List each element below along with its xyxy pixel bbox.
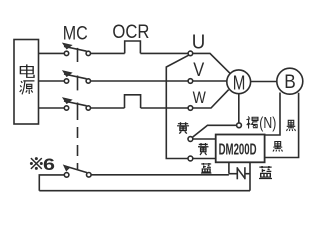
wire L3 from source — [39, 107, 65, 109]
power source box 电源 — [14, 40, 39, 125]
glyph 黄 upper — [177, 122, 189, 133]
bottom rail wire — [39, 190, 250, 192]
svg-text:W: W — [193, 88, 206, 107]
glyph 蓝 left — [201, 163, 211, 173]
contactor MC pole 2 — [63, 71, 91, 91]
wire V to motor — [193, 80, 227, 82]
svg-text:B: B — [284, 72, 296, 93]
OCR heater element phase 3 — [125, 95, 141, 108]
wire brown terminal to yellow terminal — [192, 125, 236, 137]
DM200D blue pin down to bottom rail — [249, 162, 251, 190]
wire L2 from source — [39, 80, 65, 82]
glyph 黄 lower — [198, 143, 209, 155]
wire junction to connector — [229, 173, 237, 175]
svg-text:6: 6 — [43, 155, 55, 174]
wire L1 from source — [39, 52, 65, 54]
wire yellow upper to DM200D — [193, 138, 216, 140]
motor M — [227, 70, 251, 94]
wire L1 to node U — [140, 52, 188, 54]
wire L3 to OCR — [91, 107, 125, 109]
svg-text:V: V — [193, 59, 204, 81]
wire W to motor — [193, 90, 229, 108]
wire M to B — [251, 81, 277, 83]
glyph 电 — [20, 64, 34, 77]
terminal brown (N) — [237, 123, 242, 128]
wire switch to junction — [91, 174, 229, 176]
B lead black left — [265, 93, 280, 136]
wire L1 to OCR — [91, 52, 125, 54]
DM200D bottom pin to connector junction — [228, 162, 230, 173]
reference mark ※ — [30, 157, 43, 170]
svg-text:U: U — [192, 32, 206, 54]
wire connector to blue pin — [245, 173, 250, 175]
OCR heater element phase 1 — [125, 41, 141, 53]
node U terminal — [188, 51, 193, 56]
contactor MC pole 1 — [63, 43, 91, 62]
svg-text:DM200D: DM200D — [219, 141, 257, 158]
B lead black right — [265, 93, 299, 158]
node W terminal — [188, 106, 193, 111]
wire yellow lower to DM200D — [193, 158, 216, 160]
glyph 源 — [20, 81, 35, 95]
DM200D unit box — [216, 135, 265, 163]
brake coil B — [277, 68, 303, 94]
mechanical linkage dashed — [77, 127, 79, 170]
glyph 黑 lower — [273, 142, 283, 152]
wire L3 to node W — [141, 107, 189, 109]
wire L2 to node V — [91, 80, 189, 82]
contactor MC pole 3 — [63, 98, 91, 120]
wire U to motor — [193, 53, 231, 74]
svg-text:MC: MC — [63, 24, 88, 45]
node V terminal — [188, 79, 193, 84]
terminal yellow upper — [188, 137, 193, 142]
connector plug symbol — [237, 167, 245, 179]
glyph 蓝 right — [259, 166, 272, 178]
svg-text:OCR: OCR — [112, 21, 149, 43]
wire left riser to switch — [39, 175, 64, 191]
interlock switch S6 — [64, 165, 92, 177]
terminal yellow lower — [188, 156, 193, 161]
motor lead brown: M bottom to terminal — [238, 94, 240, 123]
branch U phase down to DM200D — [166, 55, 189, 158]
glyph 黑 upper — [287, 120, 296, 131]
glyph 褐 — [246, 116, 257, 128]
svg-text:(N): (N) — [259, 115, 276, 132]
svg-text:M: M — [233, 72, 246, 95]
